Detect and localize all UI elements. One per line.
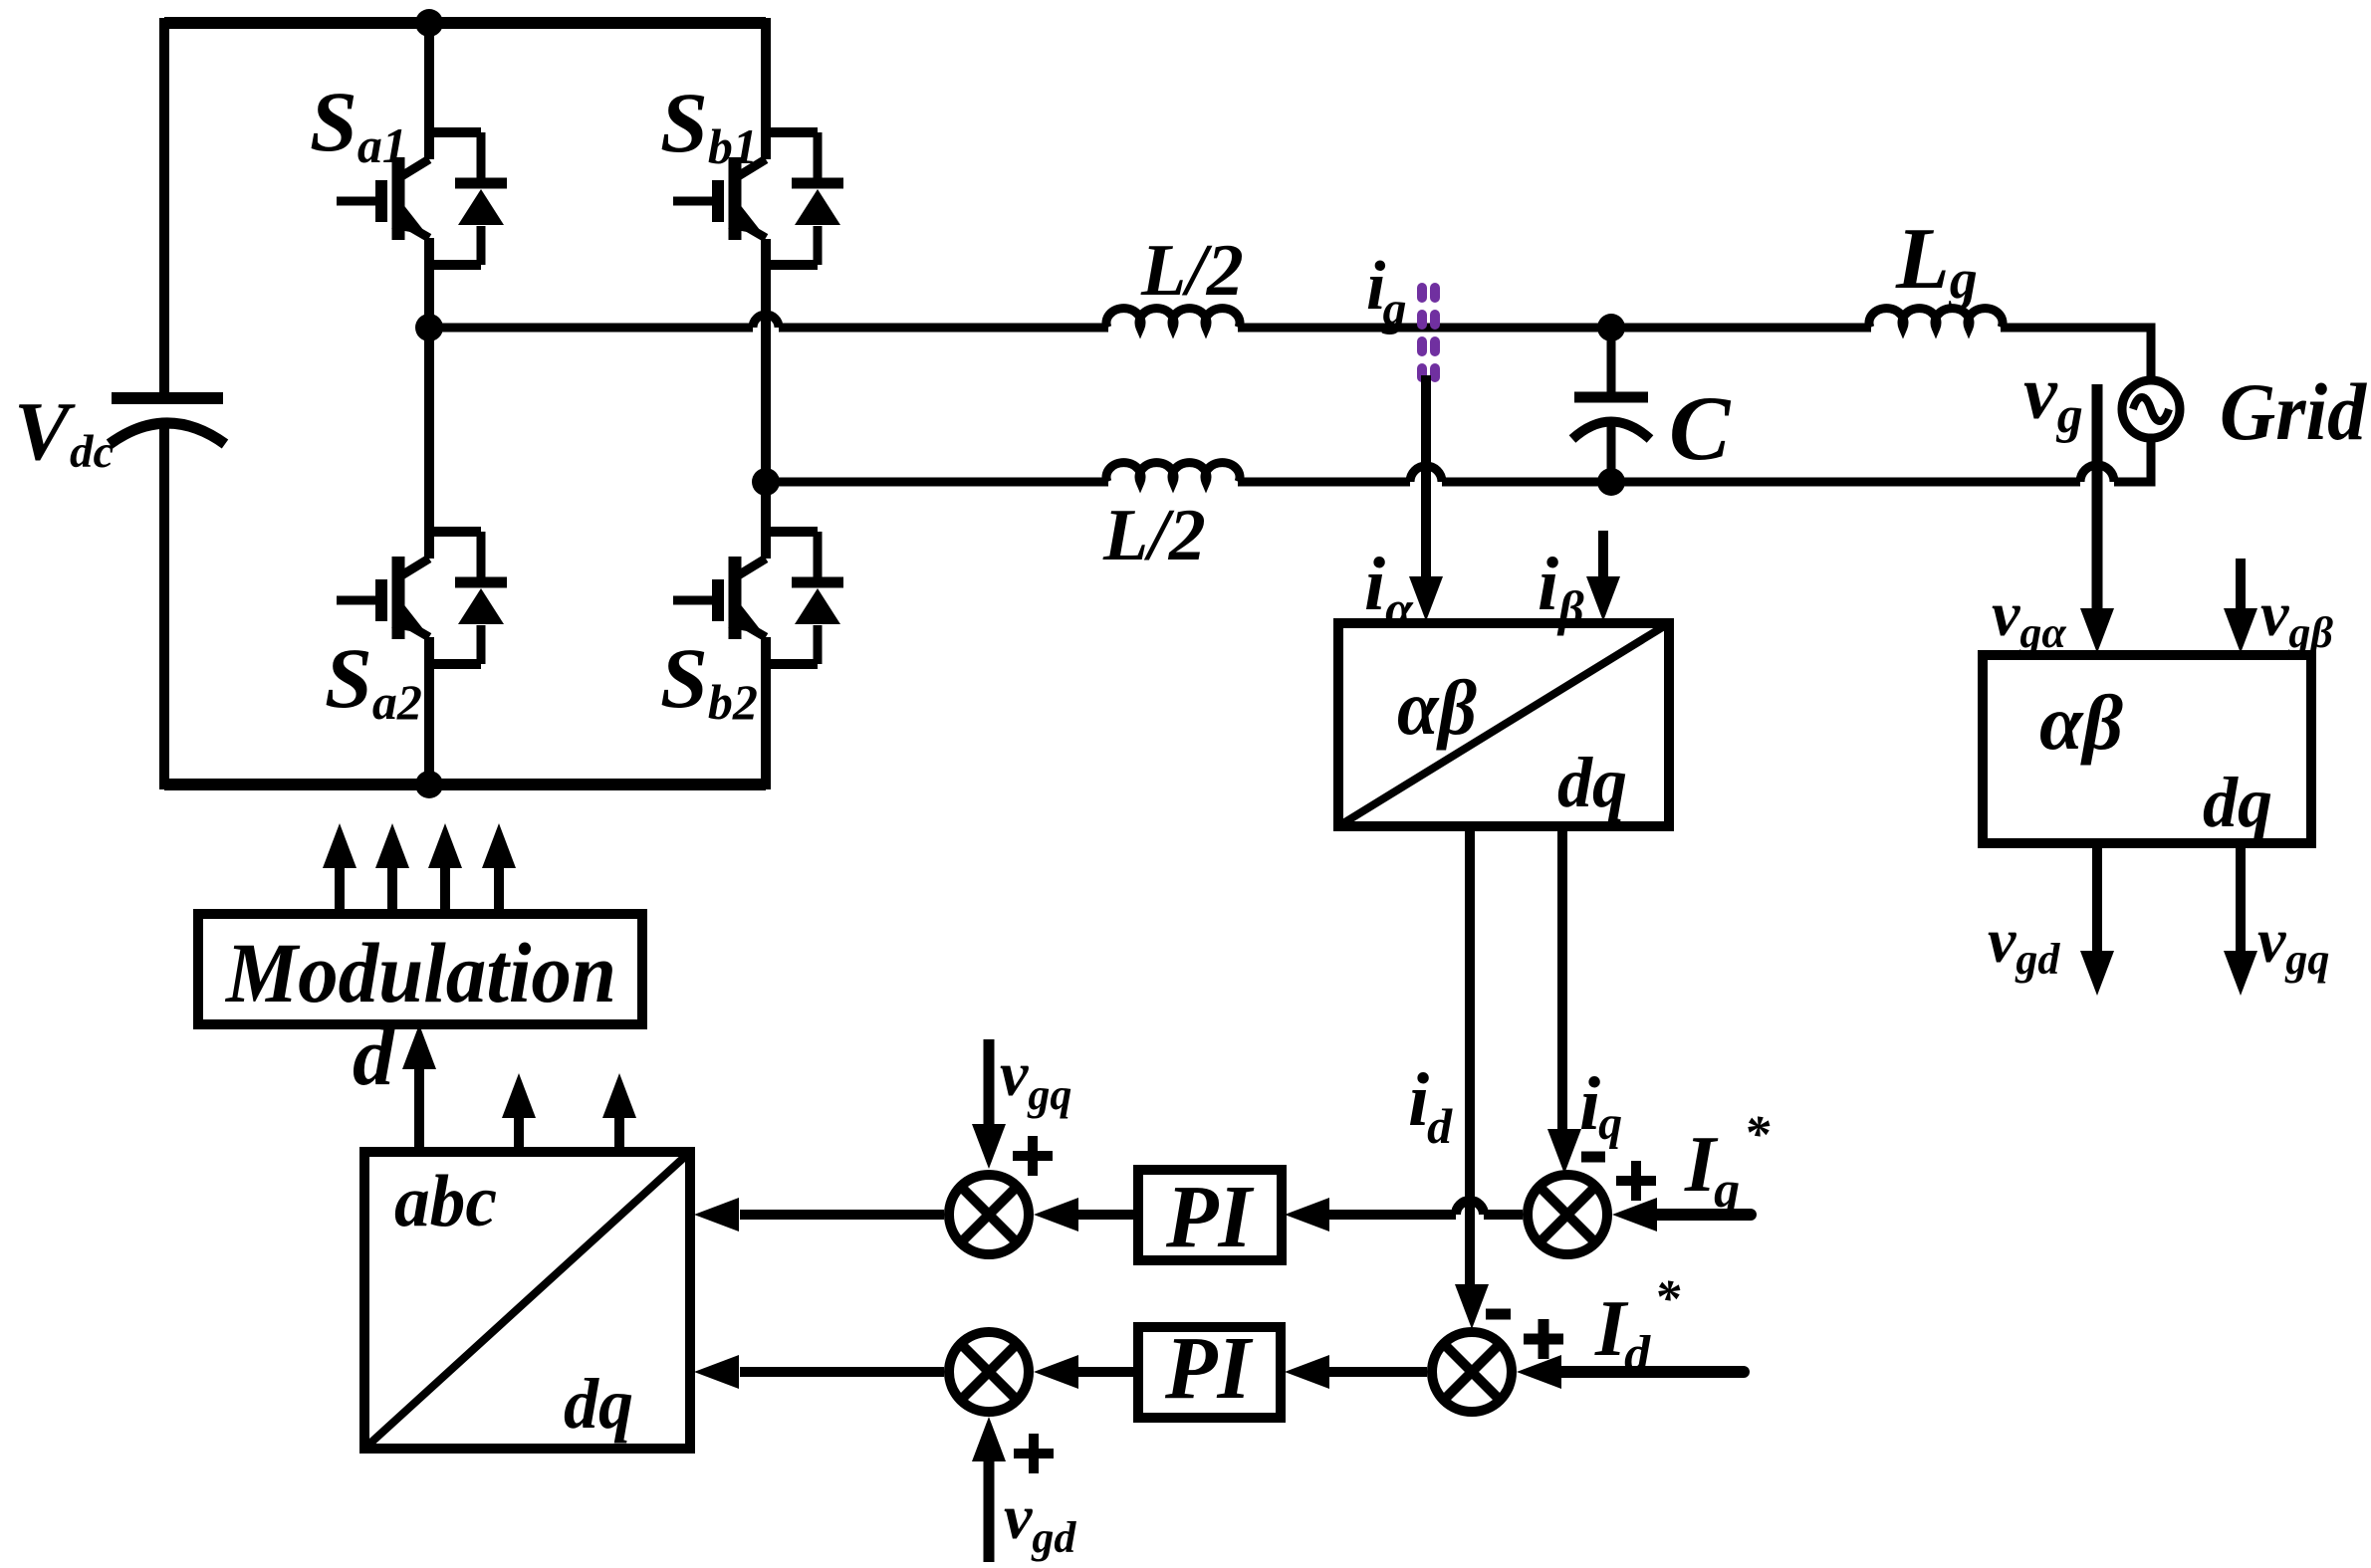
arrow abc 3: [602, 1073, 636, 1118]
svg-text:αβ: αβ: [1397, 664, 1477, 751]
svg-text:Grid: Grid: [2220, 366, 2367, 457]
label plus vgd: [1014, 1434, 1054, 1473]
arrow gate 2: [375, 823, 409, 868]
wire hop line A over b-leg: [753, 315, 779, 328]
arrow vga into transform: [2080, 608, 2114, 653]
wire left DC link upper: [159, 18, 169, 396]
node phase b: [752, 468, 780, 496]
svg-text:dq: dq: [564, 1364, 633, 1444]
arrow vgq into summer: [972, 1124, 1006, 1169]
transistor Sb1: [673, 132, 843, 265]
node top rail: [415, 9, 443, 37]
svg-text:dq: dq: [1557, 743, 1627, 822]
wire vgd output: [2092, 843, 2102, 952]
arrow d into modulation: [402, 1024, 436, 1069]
arrow into PI2: [1285, 1355, 1329, 1389]
arrow id into summer: [1455, 1284, 1489, 1329]
wire vgq feedforward: [984, 1039, 995, 1127]
wire b-leg upper: [761, 18, 771, 159]
summer q-axis error: [1528, 1175, 1607, 1254]
arrow gate 1: [323, 823, 356, 868]
label plus d: [1524, 1319, 1563, 1359]
wire hop line B over vg signal: [2080, 465, 2114, 482]
inductor L/2 lower: [1106, 463, 1240, 482]
svg-text:C: C: [1669, 377, 1732, 479]
wire vg measurement: [2092, 384, 2103, 610]
wire gate arrow 4: [494, 868, 504, 914]
wire vgb arrow: [2236, 559, 2246, 610]
wire b-leg middle: [761, 239, 771, 559]
svg-text:αβ: αβ: [2039, 679, 2123, 766]
wire Id* reference: [1558, 1366, 1744, 1378]
label plus vgq: [1013, 1136, 1053, 1176]
svg-text:PI: PI: [1164, 1319, 1254, 1418]
wire id signal: [1465, 826, 1475, 1286]
wire PI2 to summer 2: [1076, 1367, 1138, 1377]
label minus d: [1486, 1309, 1511, 1320]
wire gate arrow 2: [387, 868, 397, 914]
wire summer d to PI2: [1325, 1367, 1427, 1377]
arrow Id* into summer: [1517, 1355, 1561, 1389]
svg-text:L/2: L/2: [1140, 230, 1244, 312]
svg-text:PI: PI: [1165, 1168, 1255, 1266]
arrow gate 3: [428, 823, 462, 868]
arrow into summer 2: [1034, 1355, 1078, 1389]
wire bottom DC rail: [164, 779, 766, 790]
summer d-axis output: [949, 1332, 1029, 1412]
wire iq signal: [1557, 826, 1567, 1131]
block current ab-dq transform: [1338, 623, 1669, 826]
wire a-leg lower: [424, 637, 434, 789]
wire hop row1 over id: [1456, 1201, 1484, 1215]
wire left DC link lower: [159, 422, 169, 789]
wire d modulation signal: [414, 1066, 424, 1152]
label plus q: [1616, 1161, 1656, 1201]
block voltage ab-dq transform: [1983, 655, 2311, 843]
wire abc arrow 2: [514, 1117, 524, 1152]
wire PI1 to summer 1: [1076, 1210, 1138, 1220]
wire summer q to PI1: [1328, 1210, 1523, 1220]
wire summer 2 to abc block: [740, 1367, 944, 1377]
wire b-leg lower: [761, 637, 771, 789]
transistor Sa1: [337, 132, 507, 265]
label minus q: [1581, 1152, 1605, 1163]
arrow into PI1: [1285, 1198, 1329, 1232]
transistor Sa2: [337, 532, 507, 664]
arrow vgd output: [2080, 951, 2114, 996]
block abc-dq transform: [364, 1152, 690, 1449]
svg-text:L/2: L/2: [1102, 495, 1206, 576]
wire top DC rail: [164, 17, 766, 29]
AC source vg circle: [2122, 380, 2180, 438]
wire hop line B over ig signal: [1410, 466, 1442, 482]
node capacitor bottom: [1597, 468, 1625, 496]
arrow ia into transform: [1409, 576, 1443, 621]
transistor Sb2: [673, 532, 843, 664]
summer q-axis output: [949, 1175, 1029, 1254]
wire phase line B: [766, 442, 2151, 482]
inductor L/2 upper: [1106, 309, 1240, 328]
block PI1: [1138, 1168, 1282, 1266]
wire abc arrow 3: [614, 1117, 624, 1152]
wire vgq output: [2236, 843, 2246, 952]
arrow ib into transform: [1586, 576, 1620, 621]
inductor Lg: [1869, 309, 2003, 328]
arrow abc 2: [502, 1073, 536, 1118]
node phase a: [415, 314, 443, 341]
wire phase line A: [429, 328, 2151, 380]
wire ib arrow: [1598, 531, 1608, 579]
arrow into summer 1: [1034, 1198, 1078, 1232]
arrow vgd into summer: [972, 1417, 1006, 1461]
svg-text:dq: dq: [2203, 763, 2272, 842]
current sensor ig dashed tap: [1422, 288, 1435, 377]
wire ig signal down: [1421, 375, 1431, 579]
block PI2: [1138, 1319, 1281, 1418]
arrow iq into summer: [1547, 1129, 1581, 1174]
wire summer 1 to abc block: [740, 1210, 944, 1220]
arrow into abc block d: [694, 1355, 739, 1389]
svg-text:Modulation: Modulation: [224, 925, 616, 1020]
arrow vgq output: [2224, 951, 2257, 996]
summer d-axis error: [1432, 1332, 1512, 1412]
capacitor Vdc: [110, 398, 225, 444]
svg-text:abc: abc: [394, 1161, 497, 1242]
arrow gate 4: [482, 823, 516, 868]
node capacitor top: [1597, 314, 1625, 341]
wire a-leg upper: [424, 18, 434, 159]
wire a-leg middle: [424, 238, 434, 559]
wire gate arrow 1: [335, 868, 345, 914]
node bottom rail: [415, 771, 443, 798]
arrow into abc block q: [694, 1198, 739, 1232]
block Modulation: [198, 914, 642, 1024]
arrow Iq* into summer: [1612, 1198, 1657, 1232]
arrow vgb into transform: [2224, 608, 2257, 653]
capacitor C: [1572, 328, 1650, 482]
wire Iq* reference: [1654, 1209, 1751, 1221]
wire gate arrow 3: [440, 868, 450, 914]
wire vgd feedforward: [984, 1459, 995, 1562]
